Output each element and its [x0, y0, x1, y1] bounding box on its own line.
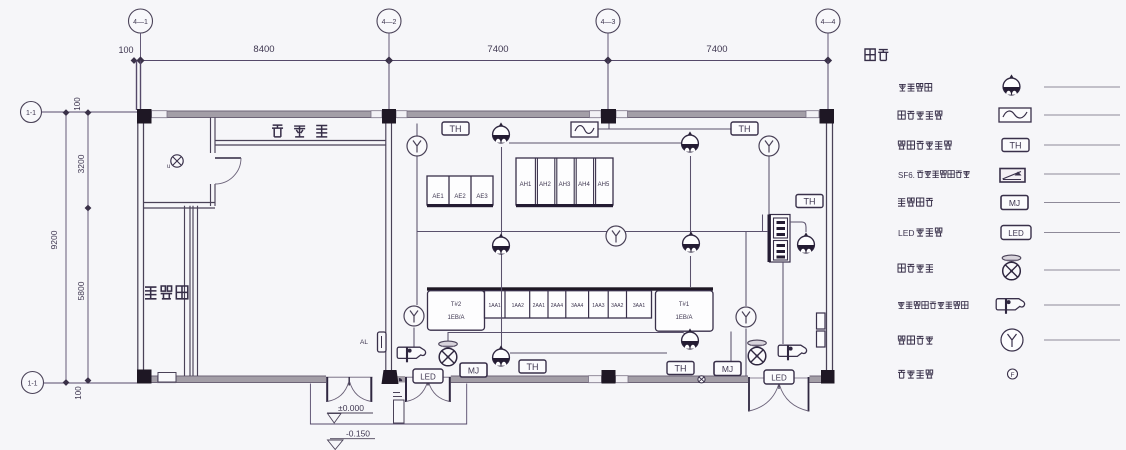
interior wall: intake shaft right wall (double pair): [185, 206, 198, 376]
column 4-4 top: [820, 109, 835, 124]
legend title: [865, 49, 888, 60]
axis circle 4-3: [596, 9, 620, 33]
legend row 6: LED display: [898, 226, 1120, 240]
svg-text:AL: AL: [360, 339, 368, 346]
svg-text:T#1: T#1: [679, 302, 690, 308]
elevation marker +-0.000: [327, 403, 373, 423]
svg-text:2AA1: 2AA1: [533, 303, 545, 309]
TH sensor 3: [796, 195, 823, 208]
svg-text:F: F: [1011, 372, 1015, 379]
cabinet group AE1-AE3: [427, 176, 493, 207]
wire: vertical riser x=690 upper: [690, 156, 692, 237]
legend row 2: water sensor: [898, 108, 1120, 122]
camera CAM4: [683, 231, 700, 252]
svg-text:AH2: AH2: [539, 182, 551, 188]
small cabinet row 1AA1..3AA1: [485, 291, 652, 318]
small device on partition wall with label: [360, 332, 386, 352]
svg-text:-0.150: -0.150: [346, 429, 370, 439]
card reader left: [397, 347, 425, 362]
svg-text:2AA4: 2AA4: [551, 303, 563, 309]
LED display 1: [413, 369, 443, 383]
legend row 3: temperature-humidity sensor: [898, 139, 1120, 152]
svg-text:9200: 9200: [49, 230, 59, 249]
Y detector bottom-left: [404, 306, 424, 326]
svg-text:±0.000: ±0.000: [338, 403, 364, 413]
svg-text:AH1: AH1: [520, 182, 532, 188]
wire: riser to MJ box bottom right: [730, 332, 732, 362]
white pipe gaps in top wall beside columns: [152, 111, 820, 118]
right wall (double line): [827, 111, 833, 383]
legend row 9: sound pickup: [898, 329, 1120, 351]
svg-text:4—2: 4—2: [382, 19, 397, 26]
svg-text:1AA1: 1AA1: [488, 303, 500, 309]
wire: distribution column to camera right: [790, 222, 806, 232]
Y detector top-right: [759, 136, 779, 156]
TH sensor 1: [442, 122, 469, 135]
svg-text:1-1: 1-1: [26, 110, 36, 117]
Y detector bottom-right: [736, 307, 756, 327]
door D3 (right double door, bottom wall): [748, 377, 810, 412]
MJ door contact 1: [460, 363, 487, 377]
svg-text:1AA2: 1AA2: [512, 303, 524, 309]
interior wall: exhaust-shaft room right wall (upper part): [211, 118, 216, 154]
entry step outline below doors D1/D2: [310, 384, 466, 425]
svg-text:u: u: [167, 164, 170, 170]
svg-text:4—3: 4—3: [601, 19, 616, 26]
LED display 2: [764, 370, 794, 384]
column 4-1 top: [137, 109, 152, 124]
wire: Y top-right down to distribution column: [768, 157, 770, 215]
left axis circle 1-1 (top): [21, 102, 42, 123]
elevation marker -0.150: [328, 429, 376, 450]
svg-text:4—4: 4—4: [821, 19, 836, 26]
svg-text:3AA1: 3AA1: [633, 303, 645, 309]
svg-text:3200: 3200: [76, 154, 86, 173]
Y detector center: [606, 226, 626, 246]
left inner dimension line: [87, 111, 89, 383]
svg-text:7400: 7400: [487, 44, 508, 55]
left axis circle 1-1 (bottom): [22, 372, 44, 394]
svg-text:1-1: 1-1: [27, 381, 37, 388]
legend row 10: manual button: [898, 369, 1018, 379]
interior partition wall under axis 4-2: [386, 124, 392, 371]
camera CAM7: [682, 328, 699, 349]
svg-text:SF6.: SF6.: [898, 171, 915, 180]
legend row 8: card reader with exit button: [898, 299, 1120, 314]
card reader right: [778, 345, 806, 360]
axis circle 4-4: [816, 9, 840, 33]
column 4-4 bottom: [821, 370, 835, 384]
transformer cabinet T#1 (right big box): [656, 291, 714, 332]
wire: camera under T#1 stub: [690, 331, 692, 334]
column 4-2 bottom: [382, 370, 399, 384]
left outer dimension line (9200): [65, 111, 67, 383]
wire: bottom horizontal bus y=332: [448, 333, 688, 337]
wire: stub wall to Y top-left: [416, 124, 418, 137]
transformer cabinet T#2 (left big box): [428, 291, 485, 331]
svg-text:100: 100: [73, 97, 82, 111]
wire: stub from column 4-3: [608, 124, 610, 130]
wire: top camera link horizontal: [509, 142, 682, 144]
axis circle 4-1: [129, 9, 153, 33]
sound-light alarm right: [748, 340, 767, 365]
camera CAM1: [493, 122, 510, 142]
small pier between doors D1 and D2: [393, 393, 404, 424]
room label: exhaust shaft: [272, 125, 327, 137]
wall-mounted boxes on right wall: [817, 313, 826, 347]
svg-text:AE1: AE1: [432, 194, 444, 200]
wire: main horizontal bus y=232: [417, 231, 768, 233]
wire: Y top-left down to Y bottom-left: [416, 156, 418, 305]
camera CAM3: [493, 233, 510, 254]
svg-text:1EB/A: 1EB/A: [675, 315, 692, 321]
column 4-2 top: [382, 109, 396, 124]
wire: Y bottom-left down stub: [413, 328, 415, 350]
svg-text:AH3: AH3: [559, 182, 571, 188]
wire: vertical riser x=502 through cabinets: [501, 147, 503, 351]
svg-text:3AA4: 3AA4: [571, 303, 583, 309]
interior wall: exhaust-shaft room right wall (lower part): [211, 184, 216, 206]
wall symbol (small circle) on bottom wall right section: [698, 376, 705, 383]
wire: Y bottom-right risers: [745, 232, 747, 307]
camera CAM6: [493, 345, 510, 366]
svg-text:100: 100: [118, 45, 133, 55]
svg-text:AH4: AH4: [578, 182, 590, 188]
TH sensor 4: [519, 360, 546, 373]
interior wall: exhaust strip bottom wall: [215, 141, 386, 146]
wire: sine sensor to TH horizontal: [598, 128, 731, 130]
sine water sensor: [571, 122, 598, 137]
room label: air intake shaft: [145, 286, 188, 299]
svg-text:8400: 8400: [253, 44, 274, 55]
svg-text:3AA2: 3AA2: [611, 303, 623, 309]
camera CAM5: [798, 232, 815, 253]
svg-text:100: 100: [74, 386, 83, 400]
door swing arc of top-left room: [215, 158, 241, 184]
svg-text:1AA3: 1AA3: [592, 303, 604, 309]
door leaf of top-left room: [215, 157, 241, 159]
svg-text:1EB/A: 1EB/A: [447, 315, 464, 321]
wire: distribution column bottom riser: [782, 262, 784, 344]
hinge mark right of bottom column 4-2: [399, 378, 402, 381]
Y detector top-left: [407, 136, 427, 156]
TH sensor 5: [667, 362, 694, 375]
small box on bottom wall near left column: [158, 373, 176, 383]
wire: bottom horizontal y=353: [510, 352, 667, 354]
legend row 4: SF6/O2 gas detector: [898, 169, 1120, 183]
top wall (grey band): [137, 111, 833, 118]
door D2 (middle double door, bottom wall): [405, 377, 451, 402]
TH sensor 2: [731, 122, 758, 135]
legend row 7: sound-light alarm: [898, 255, 1120, 280]
axis stub lines from circles to dimension line: [141, 33, 829, 61]
svg-text:AE3: AE3: [476, 194, 488, 200]
wire: stub down to alarm left: [447, 332, 449, 345]
dimension ticks top: [131, 56, 832, 64]
cabinet group AH1-AH5: [516, 158, 613, 207]
axis extension lines below dimension line: [137, 61, 829, 111]
svg-text:AE2: AE2: [454, 194, 466, 200]
column 4-3 top: [601, 109, 616, 124]
bottom wall (grey band with door openings): [137, 376, 833, 383]
room sensor (circle-x) in top-left room: [167, 155, 183, 170]
wire: second riser to distribution column: [762, 215, 764, 232]
left axis line bottom: [44, 382, 139, 384]
bottom cabinet row thick top busbar: [427, 287, 713, 290]
left wall (double line): [138, 111, 144, 383]
camera CAM2: [682, 131, 699, 152]
svg-text:5800: 5800: [76, 281, 86, 300]
sound-light alarm left: [439, 341, 458, 366]
left axis line top: [42, 111, 139, 113]
svg-text:LED: LED: [898, 228, 915, 238]
wire: vertical riser x=690 mid: [690, 256, 692, 287]
MJ door contact 2: [714, 362, 741, 376]
top dimension line: [131, 60, 830, 62]
door D1 (left double door, bottom wall): [326, 377, 373, 402]
column 4-1 bottom: [137, 370, 152, 384]
axis circle 4-2: [377, 9, 401, 33]
interior wall: top-left room bottom wall: [144, 203, 215, 209]
column 4-3 bottom: [602, 370, 616, 384]
svg-text:4—1: 4—1: [133, 19, 148, 26]
white pipe gaps in bottom wall beside columns: [158, 376, 629, 383]
power distribution column (stacked modules) right side: [768, 215, 791, 263]
left dimension ticks: [63, 109, 92, 386]
svg-text:7400: 7400: [706, 44, 727, 55]
legend row 1: dome camera: [899, 74, 1120, 95]
svg-text:AH5: AH5: [598, 182, 610, 188]
svg-text:T#2: T#2: [451, 302, 462, 308]
legend row 5: door magnetic contact: [898, 196, 1120, 210]
